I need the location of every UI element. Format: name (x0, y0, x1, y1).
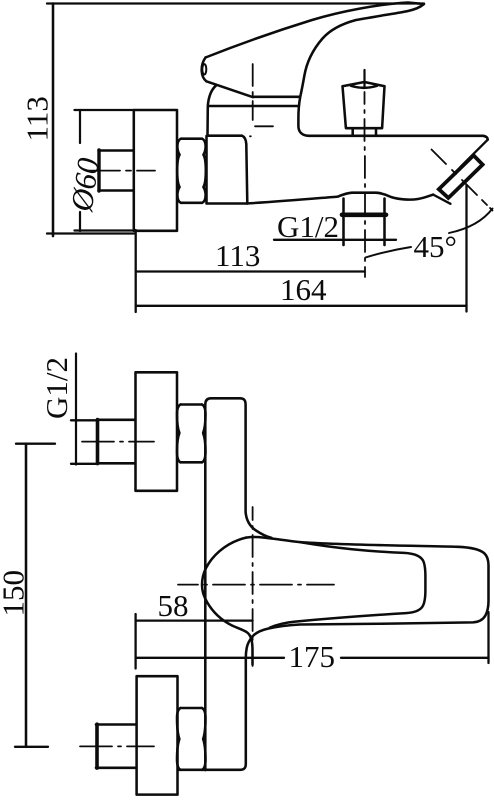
dim 175: right extension line (487, 612, 489, 663)
valve body block (207, 136, 248, 204)
G1/2 leader shelf (274, 239, 396, 241)
svg-text:113: 113 (215, 238, 260, 273)
lower inlet nipple (plan) (96, 725, 136, 768)
upper escutcheon (plan) (136, 372, 178, 491)
handle outer silhouette (plan) (202, 538, 253, 665)
dim 150: dimension line (25, 444, 28, 747)
45 leader left arc (366, 247, 412, 258)
shower outlet boss (344, 199, 385, 246)
dim Ø60: bottom tick (75, 229, 134, 231)
dim G1/2: top extension (71, 419, 97, 421)
diverter knob stem (353, 130, 376, 135)
dim 113 vertical: top extension line (47, 2, 424, 4)
dim 58: extension line (134, 614, 136, 669)
dim 113 vertical: dimension line (52, 4, 55, 237)
dim 164: right extension line (465, 185, 467, 312)
dim 113 horizontal: extension line left (135, 230, 137, 312)
upper mounting nut (plan) (181, 405, 203, 463)
spout arm bottom edge (247, 193, 434, 204)
spout 45deg lower face (433, 195, 450, 204)
dim 113 horizontal: dimension line (136, 270, 365, 272)
spout axis centerline 45deg (432, 150, 493, 211)
inlet nipple (side view) (99, 151, 134, 191)
svg-text:164: 164 (280, 272, 327, 307)
lever pivot centerline (250, 64, 273, 136)
dim 175: dimension line (136, 657, 489, 659)
lower nipple centerline (80, 745, 154, 747)
svg-text:150: 150 (0, 570, 31, 617)
svg-text:G1/2: G1/2 (39, 357, 74, 419)
dim 164: dimension line (136, 305, 467, 307)
svg-text:113: 113 (20, 96, 55, 141)
dim 113 vertical: bottom extension line (47, 232, 134, 234)
spout arm top edge (309, 136, 488, 140)
dim Ø60: dimension line (79, 110, 81, 143)
lever handle (202, 3, 424, 98)
dim 150: bottom tick (15, 746, 48, 748)
mounting nut (side view) (181, 139, 202, 203)
lower mounting nut (plan) (179, 708, 205, 770)
spout 45deg upper face (461, 140, 488, 167)
outlet centerline (364, 92, 367, 277)
diverter knob centerline (363, 70, 365, 88)
dim Ø60: top tick (75, 109, 134, 111)
lower escutcheon (plan) (137, 676, 178, 794)
lever nose cap (202, 64, 206, 74)
valve vertical centerline (plan) (252, 507, 254, 666)
upper nipple centerline (82, 441, 154, 443)
handle top face inner outline (plan) (270, 542, 425, 627)
svg-text:45°: 45° (414, 229, 457, 264)
shower outlet thick thread line (342, 213, 386, 218)
svg-text:175: 175 (289, 639, 336, 674)
45 leader right arc (449, 209, 493, 234)
upper inlet nipple (plan) (97, 420, 135, 464)
handle horizontal centerline (178, 584, 334, 586)
dim 150: top tick (16, 443, 55, 445)
aerator collar (45deg) (439, 155, 483, 198)
svg-text:58: 58 (158, 588, 189, 623)
dim G1/2 (plan): dimension line (75, 354, 77, 465)
wall escutcheon (side view) (134, 110, 177, 231)
diverter knob (343, 82, 385, 128)
body bar (plan) (205, 398, 271, 770)
dim G1/2: bottom extension (71, 463, 97, 465)
dim 58: dimension line (136, 619, 253, 621)
nipple centerline (86, 170, 155, 172)
cartridge housing (208, 86, 310, 136)
